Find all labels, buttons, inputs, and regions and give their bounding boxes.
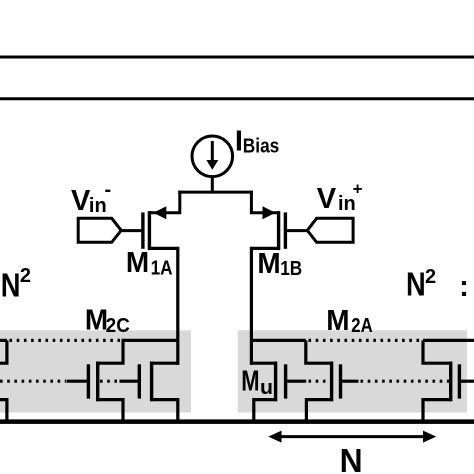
svg-text:M: M [257, 248, 280, 280]
svg-text:2C: 2C [106, 315, 130, 337]
svg-text:N: N [340, 442, 363, 474]
label M1A [126, 247, 173, 280]
svg-text:M: M [126, 247, 149, 279]
right array gate node row dotted [309, 380, 450, 383]
label M2C [85, 305, 130, 337]
svg-text:1B: 1B [280, 258, 302, 280]
wire current source to tail bar [211, 177, 214, 194]
wire Vin+ to M1B gate [285, 229, 308, 232]
left array drain node row dotted [0, 339, 178, 342]
M1A source arrow [153, 206, 166, 219]
right array unit transistor 3 source lead [423, 400, 451, 421]
transistor M1B channel [277, 211, 280, 250]
svg-text:N: N [406, 265, 426, 302]
svg-text:2A: 2A [351, 315, 372, 337]
unit transistor Mu channel [274, 362, 277, 402]
svg-text:M: M [241, 366, 259, 398]
right array drain node row dotted [251, 339, 474, 342]
transistor M1A channel [148, 211, 151, 250]
left array unit transistor 1 source lead [98, 400, 123, 421]
input terminal Vin- [78, 218, 121, 242]
wire M1A drain down to left array [149, 248, 177, 365]
left array unit transistor 2 drain lead [152, 362, 178, 365]
wire tail bar left down to M1A source [149, 191, 179, 213]
svg-text:M: M [85, 305, 108, 337]
unit transistor Mu gate bar [284, 364, 287, 398]
right array unit transistor 2 channel [330, 362, 333, 402]
right array unit transistor 2 gate lead [341, 380, 359, 383]
transistor M1B gate bar [284, 212, 287, 248]
svg-text:-: - [105, 179, 112, 201]
left array unit transistor 2 source lead [152, 400, 178, 421]
svg-text:I: I [235, 126, 243, 158]
unit transistor Mu drain lead [251, 362, 275, 365]
svg-text:N: N [1, 267, 21, 304]
dimension arrow N [268, 431, 436, 443]
left array unit transistor 1 gate bar [87, 364, 90, 398]
label N squared right with colon [406, 265, 469, 303]
right array unit transistor 2 drain lead [306, 340, 332, 363]
right array unit transistor 2 gate bar [339, 364, 342, 398]
M1B source arrow [263, 206, 276, 219]
right array unit transistor 3 drain lead [423, 340, 451, 363]
right array unit transistor 3 gate lead [459, 380, 474, 383]
left edge partial unit transistor leads [0, 340, 7, 421]
svg-text:2: 2 [425, 266, 436, 288]
unit transistor Mu gate lead [286, 380, 307, 383]
left transistor array shaded box [0, 330, 191, 412]
right transistor array shaded box [238, 330, 467, 412]
label Vin- [71, 179, 111, 217]
svg-text:Bias: Bias [243, 135, 279, 157]
left array gate node row dotted [0, 380, 139, 383]
label M1B [257, 248, 302, 280]
tail node bar wire [178, 191, 253, 194]
left array unit transistor 2 (M2C) gate bar [138, 364, 141, 398]
svg-text::: : [459, 270, 469, 303]
top rail line 2 [0, 97, 474, 100]
wire tail bar right down to M1B source [251, 191, 278, 213]
wire M1B drain down to right array [251, 248, 278, 365]
transistor M1A gate bar [141, 212, 144, 248]
ground rail [0, 419, 474, 424]
top rail line 1 [0, 56, 474, 59]
wire Vin- to M1A gate [120, 229, 143, 232]
left array unit transistor 1 channel [96, 362, 99, 402]
right array unit transistor 3 channel [449, 362, 452, 402]
svg-text:V: V [317, 183, 337, 215]
left array unit transistor 1 drain lead [98, 340, 123, 363]
right array unit transistor 3 gate bar [458, 364, 461, 398]
svg-text:u: u [260, 377, 273, 399]
label Vin+ [317, 179, 363, 215]
label Mu [241, 366, 273, 400]
label N squared left [1, 265, 31, 303]
label N [340, 442, 363, 474]
right array unit transistor 2 source lead [306, 400, 331, 421]
svg-text:2: 2 [20, 265, 31, 287]
svg-text:+: + [353, 179, 363, 198]
unit transistor Mu source lead [254, 400, 276, 421]
current source I_Bias circle [192, 136, 233, 177]
label M2A [326, 305, 372, 337]
label I_Bias [235, 126, 279, 158]
svg-text:1A: 1A [151, 257, 173, 279]
left array unit transistor 2 (M2C) channel [150, 362, 153, 402]
input terminal Vin+ [307, 218, 353, 242]
svg-text:M: M [326, 305, 349, 337]
